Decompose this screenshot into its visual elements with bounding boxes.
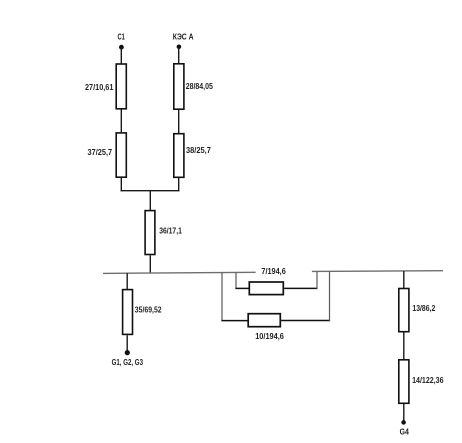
wire right bus [312,270,443,273]
svg-text:13/86,2: 13/86,2 [412,303,435,313]
resistor 14 [399,360,409,404]
node KES A terminal dot [177,45,182,50]
wire resistor 35 to G1 dot [126,335,128,352]
wire top branch left lead [235,287,249,289]
node G4 terminal dot [401,420,406,425]
wire KES A dot to resistor 28 [178,47,180,64]
node C1 terminal dot [119,45,124,50]
svg-text:G4: G4 [400,427,409,437]
wire bottom branch riser to right bus [329,271,331,321]
wire bottom branch left lead [221,320,248,322]
node G1,G2,G3 terminal dot [125,350,130,355]
wire joint to resistor 36 [149,191,151,211]
wire left bus [103,272,256,273]
svg-text:14/122,36: 14/122,36 [412,375,444,385]
wire right bus to resistor 13 [403,271,405,289]
resistor 13 [399,289,409,332]
wire top branch right lead [284,287,317,289]
wire C1 dot to resistor 27 [120,47,122,63]
svg-text:36/17,1: 36/17,1 [159,226,182,236]
resistor 35 [123,290,133,335]
wire top branch riser to right bus [316,271,318,289]
wire resistor 13 to resistor 14 [403,332,405,359]
svg-text:37/25,7: 37/25,7 [88,147,113,157]
resistor 28 [174,64,184,109]
wire resistor 37 to joint [120,178,122,191]
resistor 10 [248,314,280,327]
svg-text:27/10,61: 27/10,61 [85,82,114,92]
svg-text:10/194,6: 10/194,6 [255,331,284,341]
wire resistor 14 to G4 dot [403,404,405,422]
svg-text:7/194,6: 7/194,6 [261,266,286,276]
resistor 38 [174,134,184,178]
resistor 7 [249,282,283,295]
svg-text:КЭС А: КЭС А [173,32,194,42]
resistor 36 [145,211,155,255]
svg-text:C1: C1 [118,32,126,42]
wire resistor 36 to left bus [149,255,151,273]
wire joint horizontal connector [121,190,180,192]
wire left bus to parallel bottom branch riser [221,273,223,321]
wire bottom branch right lead [281,320,330,322]
wire resistor 28 to resistor 38 [178,110,180,133]
svg-text:35/69,52: 35/69,52 [135,305,162,315]
wire left bus to resistor 35 [126,273,128,289]
svg-text:28/84,05: 28/84,05 [186,81,213,91]
svg-text:38/25,7: 38/25,7 [186,145,211,155]
svg-text:G1, G2, G3: G1, G2, G3 [112,357,144,367]
wire resistor 27 to resistor 37 [120,110,122,133]
resistor 27 [116,64,126,109]
wire left bus to parallel top branch riser [235,273,237,289]
resistor 37 [116,133,126,177]
wire resistor 38 to joint [178,178,180,191]
